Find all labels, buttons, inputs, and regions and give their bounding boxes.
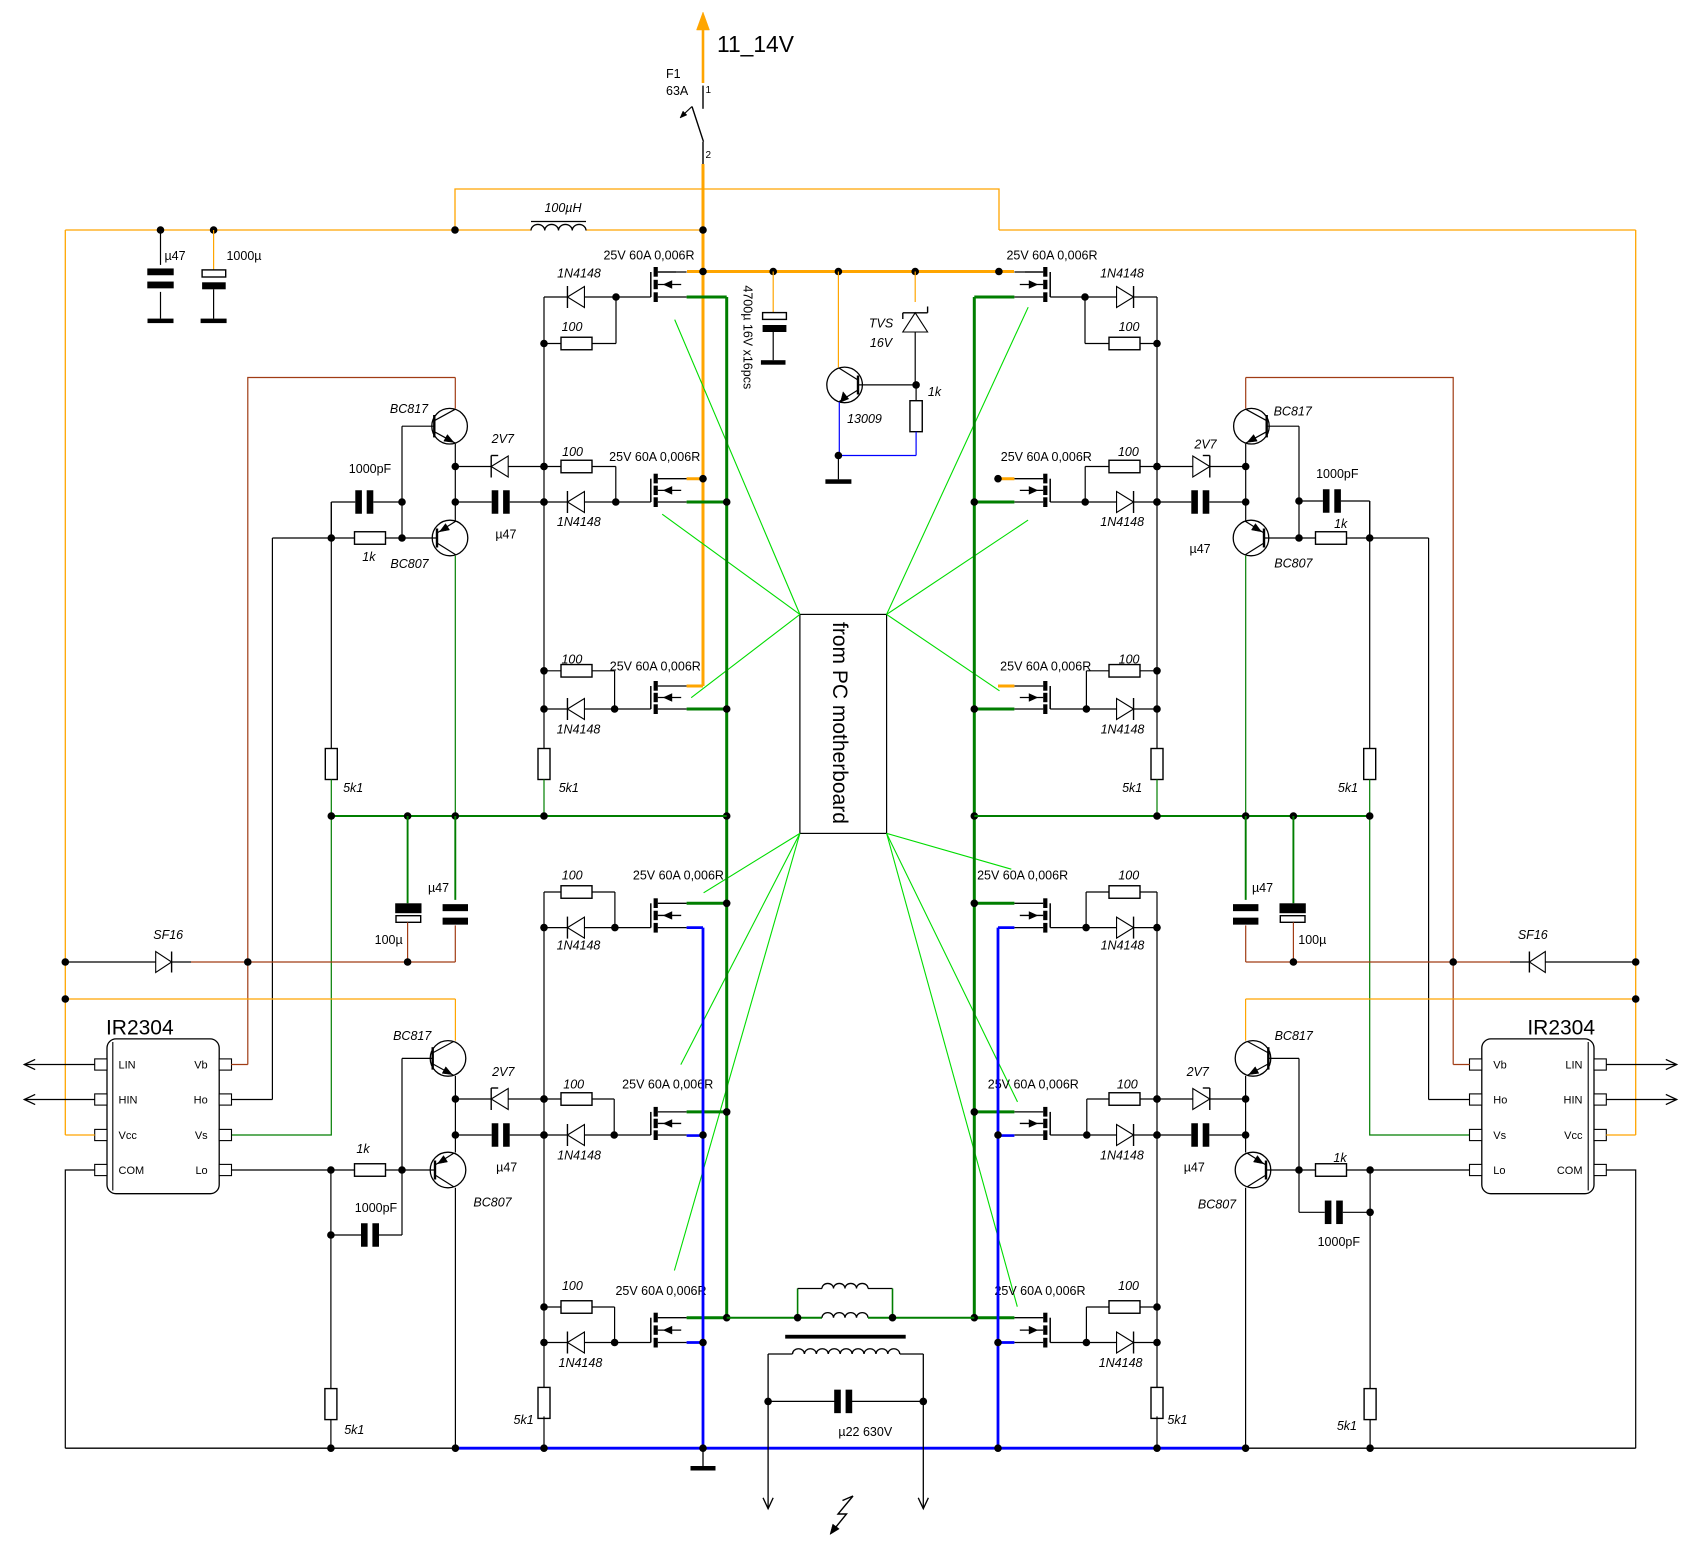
svg-text:Vs: Vs bbox=[1493, 1130, 1506, 1142]
wire BC817 collector (BL) bbox=[454, 999, 456, 1041]
svg-text:5k1: 5k1 bbox=[514, 1413, 534, 1427]
wire gate signal M2 top-left bbox=[662, 514, 800, 614]
wire Vcc orange row left bbox=[65, 998, 455, 1000]
svg-text:1N4148: 1N4148 bbox=[1100, 515, 1144, 529]
transistor BC817 (BL) bbox=[430, 1041, 466, 1077]
resistor 100 (B2 right) bbox=[1087, 1093, 1157, 1135]
svg-text:Vs: Vs bbox=[195, 1130, 208, 1142]
wire B1 source blue L bbox=[687, 926, 703, 929]
label 1k (TR) bbox=[1334, 517, 1348, 531]
svg-text:1N4148: 1N4148 bbox=[1101, 939, 1145, 953]
svg-text:1N4148: 1N4148 bbox=[1099, 1356, 1143, 1370]
wire orange left edge vertical bbox=[64, 230, 66, 1135]
svg-text:1k: 1k bbox=[1333, 1151, 1347, 1165]
transistor BC817 (TR) bbox=[1234, 408, 1270, 444]
junction dots phase bus left bbox=[723, 498, 731, 1321]
resistor 100 (B1 right) bbox=[1086, 886, 1157, 928]
transistor BC807 (BR) bbox=[1235, 1152, 1271, 1188]
svg-text:5k1: 5k1 bbox=[344, 1423, 364, 1437]
label 100 (M2 right) bbox=[1118, 445, 1139, 459]
wire gate rail R bottom bbox=[1156, 892, 1158, 1389]
capacitor u47 (BR) bbox=[1157, 1123, 1246, 1147]
wire column x331 bottom left bbox=[330, 1235, 332, 1389]
zener diode 2V7 (TR) bbox=[1157, 456, 1246, 478]
wire BC817 base (BR) bbox=[1268, 1057, 1299, 1059]
wire B2 source blue R bbox=[998, 1134, 1014, 1137]
wire gate signal B1 bottom-left bbox=[704, 833, 800, 892]
wire negative bus blue left bbox=[702, 928, 705, 1449]
MOSFET M1 left 25V 60A 0,006R bbox=[651, 267, 687, 302]
transformer core bbox=[785, 1335, 906, 1339]
wire Vs green left bbox=[231, 816, 331, 1135]
wire orange right edge vertical bbox=[1635, 230, 1637, 1135]
label µ47 (TR) bbox=[1190, 542, 1211, 556]
wire BC817 base (BL) bbox=[402, 1057, 433, 1059]
resistor 100 (B2 left) bbox=[544, 1093, 614, 1135]
wire gate signal B2 bottom-right bbox=[887, 833, 1018, 1102]
wire gate signal M1 top-left bbox=[675, 320, 800, 615]
svg-text:Ho: Ho bbox=[1493, 1095, 1507, 1107]
junction dots (M3 left) bbox=[540, 667, 618, 713]
label 5k1 (left bottom column) bbox=[344, 1423, 364, 1437]
svg-text:HIN: HIN bbox=[119, 1095, 138, 1107]
wire gate rail R top bbox=[1156, 297, 1158, 748]
label 11_14V bbox=[717, 31, 795, 57]
wire M3 source green R bbox=[974, 708, 1014, 711]
label 1N4148 (M1 right) bbox=[1100, 267, 1144, 281]
diode 1N4148 (B3 right) bbox=[1050, 1332, 1157, 1354]
wire LIN input arrow (left) bbox=[24, 1059, 95, 1069]
label 5k1 (left top column) bbox=[343, 781, 363, 795]
wire drive input (TR) bbox=[1370, 537, 1429, 539]
wire BC817 collector (BR) bbox=[1245, 999, 1247, 1041]
junction dots (B2 right) bbox=[1083, 1095, 1161, 1139]
junction dots (M1 left) bbox=[540, 293, 620, 347]
junction dots rail (TL) bbox=[540, 463, 548, 506]
label µ47 (BR) bbox=[1184, 1161, 1205, 1175]
svg-text:Vb: Vb bbox=[194, 1060, 207, 1072]
wire negative bus blue right bbox=[997, 928, 1000, 1449]
svg-text:Vcc: Vcc bbox=[119, 1130, 138, 1142]
svg-text:1k: 1k bbox=[356, 1142, 370, 1156]
svg-text:µ47: µ47 bbox=[164, 249, 185, 263]
svg-text:100: 100 bbox=[563, 1078, 584, 1092]
junction dots orange bus y230 bbox=[157, 226, 707, 234]
wire drain bus y271.5 bbox=[687, 270, 1014, 273]
transformer primary (raised winding) bbox=[798, 1283, 893, 1317]
svg-text:100: 100 bbox=[1118, 445, 1139, 459]
svg-text:100: 100 bbox=[1119, 653, 1140, 667]
label 1000pF (BR) bbox=[1318, 1235, 1361, 1249]
junction dots SF16 row right bbox=[1290, 958, 1640, 966]
wire Ho feed right bbox=[1428, 538, 1430, 1100]
wire B2 drain green R bbox=[974, 1110, 1014, 1113]
block from PC motherboard bbox=[800, 614, 887, 833]
label BC807 (BL) bbox=[473, 1196, 512, 1210]
label 1N4148 (B3 right) bbox=[1099, 1356, 1143, 1370]
junction dots blue bus right bbox=[994, 1131, 1002, 1346]
resistor 5k1 (rail R top) bbox=[1151, 749, 1163, 780]
svg-text:100: 100 bbox=[562, 869, 583, 883]
diode 1N4148 (B2 left) bbox=[544, 1124, 651, 1146]
wire 1000pF left vertical (TR) bbox=[1369, 501, 1371, 538]
label BC817 (TR) bbox=[1274, 405, 1313, 419]
resistor 5k1 (right top column) bbox=[1364, 749, 1376, 817]
junction dots 1k (TL) bbox=[328, 534, 336, 542]
svg-text:1000µ: 1000µ bbox=[226, 249, 261, 263]
label 100 (B2 left) bbox=[563, 1078, 584, 1092]
label 100 (B3 right) bbox=[1118, 1279, 1139, 1293]
junction dot M2 drain R bbox=[994, 475, 1002, 483]
transistor BC817 (TL) bbox=[432, 408, 468, 444]
diode SF16 (left) bbox=[65, 928, 191, 973]
IC IR2304 (R) bbox=[1470, 1017, 1607, 1194]
svg-text:1N4148: 1N4148 bbox=[557, 1149, 601, 1163]
label 1N4148 (B3 left) bbox=[559, 1356, 603, 1370]
junction dots emitter rail (BL) bbox=[452, 1095, 460, 1139]
junction dots 1k (BR) bbox=[1366, 1166, 1374, 1174]
label 100 (B1 left) bbox=[562, 869, 583, 883]
wire BC807 collector (TR) bbox=[1245, 556, 1247, 816]
svg-text:1N4148: 1N4148 bbox=[559, 1356, 603, 1370]
resistor 1k (13009 base) bbox=[910, 381, 942, 455]
wire ground bus black left bbox=[65, 1447, 455, 1449]
label 25V 60A 0,006R (B3 right) bbox=[994, 1284, 1085, 1298]
resistor 100 (B1 left) bbox=[544, 886, 615, 928]
junction dot base/cap (BL) bbox=[398, 1166, 406, 1174]
wire gate signal M2 top-right bbox=[887, 520, 1029, 614]
output arrow left bbox=[763, 1498, 773, 1509]
junction dots emitter rail (TL) bbox=[452, 463, 460, 506]
wire gate signal B3 bottom-left bbox=[674, 833, 800, 1270]
resistor 5k1 (rail R bottom) bbox=[1151, 1387, 1163, 1418]
label 25V 60A 0,006R (M3 right) bbox=[1000, 660, 1091, 674]
wire M1 drain stub L bbox=[658, 271, 676, 273]
zener diode 2V7 (BR) bbox=[1157, 1088, 1246, 1110]
svg-text:100: 100 bbox=[1119, 320, 1140, 334]
transformer primary (in-line winding) bbox=[727, 1313, 975, 1318]
MOSFET B1 right 25V 60A 0,006R bbox=[1014, 898, 1050, 932]
wire M1 source green R bbox=[974, 296, 1014, 299]
wire B3 drain green L bbox=[687, 1316, 727, 1319]
svg-text:1k: 1k bbox=[928, 385, 942, 399]
label 1N4148 (B2 right) bbox=[1100, 1149, 1144, 1163]
resistor 5k1 (left bottom column) bbox=[325, 1389, 337, 1449]
wire 13009 emitter blue bbox=[838, 402, 916, 456]
wire base vertical (BL) bbox=[401, 1058, 403, 1170]
wire COM (left) bbox=[65, 1170, 95, 1448]
resistor 100 (M2 right) bbox=[1085, 460, 1157, 502]
diode 1N4148 (M1 left) bbox=[544, 286, 651, 308]
wire Vb brown (left) bbox=[231, 1064, 248, 1066]
svg-text:1000pF: 1000pF bbox=[1316, 467, 1359, 481]
svg-text:µ47: µ47 bbox=[1184, 1161, 1205, 1175]
svg-text:F1: F1 bbox=[666, 67, 681, 81]
wire emitter rail (BL) bbox=[454, 1076, 456, 1153]
capacitor 4700u 16V x16pcs bbox=[741, 272, 787, 390]
junction dots blue bus left bbox=[699, 1131, 707, 1346]
label 5k1 (rail L bottom) bbox=[514, 1413, 534, 1427]
resistor 5k1 (right bottom column) bbox=[1364, 1389, 1376, 1449]
wire gate signal M1 top-right bbox=[887, 307, 1029, 614]
wire Vcc orange row right bbox=[1246, 998, 1636, 1000]
label 1N4148 (M2 right) bbox=[1100, 515, 1144, 529]
label 1N4148 (B1 right) bbox=[1101, 939, 1145, 953]
wire B1 source blue R bbox=[998, 926, 1014, 929]
wire main orange vertical x703 bbox=[702, 164, 705, 686]
svg-text:25V 60A 0,006R: 25V 60A 0,006R bbox=[633, 869, 724, 883]
resistor 100 (M2 left) bbox=[544, 460, 616, 502]
wire B1 drain green L bbox=[687, 902, 727, 905]
junction dot base/cap (TL) bbox=[398, 498, 406, 542]
IC IR2304 pin labels (R) bbox=[1493, 1060, 1583, 1178]
svg-text:BC807: BC807 bbox=[1274, 557, 1313, 571]
svg-text:µ47: µ47 bbox=[1252, 881, 1273, 895]
ground (1000u top left) bbox=[201, 319, 227, 324]
wire SF16 to caps brown (right) bbox=[1246, 961, 1510, 963]
junction dot 1000pF (BL) bbox=[327, 1231, 335, 1239]
label 25V 60A 0,006R (M2 right) bbox=[1001, 450, 1092, 464]
wire column x1370 top right bbox=[1369, 501, 1371, 748]
wire 1000pF verticals (BR) bbox=[1299, 1170, 1370, 1212]
wire emitter rail (BR) bbox=[1245, 1076, 1247, 1153]
label 2V7 (TL) bbox=[491, 432, 515, 446]
svg-text:LIN: LIN bbox=[119, 1060, 136, 1072]
capacitor u47 (top left) bbox=[147, 230, 185, 319]
junction dots transformer primary bbox=[794, 1314, 897, 1322]
resistor 1k (BL) bbox=[331, 1164, 402, 1177]
wire BC807 base (TR) bbox=[1264, 537, 1299, 539]
label 5k1 (rail R bottom) bbox=[1167, 1413, 1187, 1427]
wire COM (right) bbox=[1606, 1170, 1636, 1448]
svg-text:Ho: Ho bbox=[194, 1095, 208, 1107]
svg-text:11_14V: 11_14V bbox=[717, 31, 795, 57]
junction dots rail (TR) bbox=[1153, 463, 1161, 506]
wire M2 source green R bbox=[974, 501, 1014, 504]
MOSFET B3 left 25V 60A 0,006R bbox=[651, 1313, 687, 1348]
diode 1N4148 (B2 right) bbox=[1050, 1124, 1157, 1146]
svg-text:2V7: 2V7 bbox=[491, 432, 515, 446]
svg-text:1: 1 bbox=[706, 85, 712, 96]
svg-text:25V 60A 0,006R: 25V 60A 0,006R bbox=[609, 450, 700, 464]
label 25V 60A 0,006R (M1 left) bbox=[603, 249, 694, 263]
wire base vertical (TR) bbox=[1298, 426, 1300, 538]
wire M2 drain orange R bbox=[998, 477, 1014, 480]
junction dot base/cap (BR) bbox=[1295, 1166, 1303, 1174]
transistor 13009 bbox=[827, 272, 916, 427]
label 1k (TL) bbox=[362, 550, 376, 564]
wire BC807 collector (BR) bbox=[1245, 1188, 1247, 1449]
wire base vertical (TL) bbox=[401, 426, 403, 538]
wire BC817 base (TL) bbox=[402, 425, 434, 427]
wire phase bus green left bbox=[725, 297, 728, 1318]
svg-text:Vb: Vb bbox=[1493, 1060, 1506, 1072]
inductor 100uH bbox=[531, 201, 586, 231]
svg-text:BC817: BC817 bbox=[1274, 405, 1313, 419]
wire 1000pF left vertical (TL) bbox=[330, 502, 332, 538]
svg-text:100: 100 bbox=[561, 653, 582, 667]
label 2V7 (BL) bbox=[491, 1065, 515, 1079]
wire SF16 to caps brown (left) bbox=[191, 961, 455, 963]
svg-text:µ47: µ47 bbox=[1190, 542, 1211, 556]
output arrow right bbox=[918, 1498, 928, 1509]
label 100 (M3 left) bbox=[561, 653, 582, 667]
fuse-switch F1 63A bbox=[666, 67, 712, 164]
junction dots rail (BR) bbox=[1153, 1095, 1161, 1139]
svg-text:5k1: 5k1 bbox=[1337, 1419, 1357, 1433]
label 1000pF (BL) bbox=[355, 1201, 398, 1215]
wire gate signal B3 bottom-right bbox=[887, 833, 1018, 1306]
junction dot M2 drain L bbox=[699, 475, 707, 483]
wire BC817 collector (TL) bbox=[454, 378, 456, 409]
wire Vcc orange (right) bbox=[1606, 1134, 1636, 1136]
label BC817 (BL) bbox=[393, 1029, 432, 1043]
svg-text:BC817: BC817 bbox=[393, 1029, 432, 1043]
wire column x1371 bottom right bbox=[1369, 1212, 1371, 1389]
wire M1 drain stub R bbox=[1025, 271, 1043, 273]
wire Vb brown bus right bbox=[1246, 378, 1454, 1065]
label 25V 60A 0,006R (B2 right) bbox=[988, 1078, 1079, 1092]
svg-text:5k1: 5k1 bbox=[1122, 781, 1142, 795]
diode 1N4148 (M2 right) bbox=[1050, 491, 1157, 513]
junction dots (M2 right) bbox=[1081, 463, 1160, 506]
transistor BC807 (TL) bbox=[432, 520, 468, 556]
diode 1N4148 (B1 left) bbox=[544, 917, 651, 939]
wire BC807 base (BR) bbox=[1266, 1169, 1299, 1171]
MOSFET B2 right 25V 60A 0,006R bbox=[1014, 1107, 1050, 1140]
svg-text:BC807: BC807 bbox=[473, 1196, 512, 1210]
svg-text:Lo: Lo bbox=[195, 1165, 207, 1177]
spark symbol bbox=[830, 1496, 853, 1535]
junction dots SF16 row left bbox=[62, 958, 412, 966]
junction dots (M2 left) bbox=[540, 463, 619, 506]
junction dots (B2 left) bbox=[540, 1095, 618, 1139]
resistor 100 (M1 right) bbox=[1085, 297, 1157, 350]
svg-text:100: 100 bbox=[562, 1279, 583, 1293]
label 100 (B1 right) bbox=[1118, 869, 1139, 883]
label BC807 (BR) bbox=[1198, 1198, 1237, 1212]
svg-text:1N4148: 1N4148 bbox=[1101, 723, 1145, 737]
svg-text:HIN: HIN bbox=[1564, 1095, 1583, 1107]
label 25V 60A 0,006R (B3 left) bbox=[615, 1284, 706, 1298]
resistor 5k1 (rail L top) bbox=[538, 749, 550, 780]
svg-text:SF16: SF16 bbox=[153, 928, 183, 942]
label 1N4148 (M2 left) bbox=[557, 515, 601, 529]
svg-text:2V7: 2V7 bbox=[1193, 438, 1217, 452]
wire orange bus y230 right bbox=[999, 229, 1636, 231]
svg-text:from PC motherboard: from PC motherboard bbox=[828, 622, 851, 824]
svg-text:1N4148: 1N4148 bbox=[1100, 1149, 1144, 1163]
resistor 100 (M1 left) bbox=[544, 297, 616, 350]
svg-text:COM: COM bbox=[1557, 1165, 1583, 1177]
svg-text:BC817: BC817 bbox=[390, 402, 429, 416]
svg-text:1000pF: 1000pF bbox=[349, 462, 392, 476]
wire BC807 base (BL) bbox=[402, 1169, 435, 1171]
svg-text:25V 60A 0,006R: 25V 60A 0,006R bbox=[1000, 660, 1091, 674]
label BC817 (BR) bbox=[1275, 1029, 1314, 1043]
diode 1N4148 (B3 left) bbox=[544, 1332, 651, 1354]
transformer secondary bbox=[768, 1349, 923, 1509]
svg-text:BC807: BC807 bbox=[390, 557, 429, 571]
wire HIN input arrow (right) bbox=[1606, 1094, 1677, 1104]
wire base vertical (BR) bbox=[1298, 1058, 1300, 1170]
wire mid bus green right bbox=[974, 815, 1369, 817]
svg-text:5k1: 5k1 bbox=[343, 781, 363, 795]
svg-text:COM: COM bbox=[119, 1165, 145, 1177]
svg-text:25V 60A 0,006R: 25V 60A 0,006R bbox=[1006, 249, 1097, 263]
svg-text:100: 100 bbox=[562, 320, 583, 334]
wire gate signal B1 bottom-right bbox=[887, 833, 1012, 869]
label 1k (BL) bbox=[356, 1142, 370, 1156]
ground (13009) bbox=[825, 456, 851, 484]
wire gate rail L bottom bbox=[543, 892, 545, 1389]
junction dot base/cap (TR) bbox=[1295, 497, 1303, 542]
ground (main) bbox=[691, 1448, 716, 1470]
label 100 (M2 left) bbox=[562, 445, 583, 459]
capacitor u22 630V bbox=[764, 1390, 927, 1439]
capacitor u47 (mid right) bbox=[1233, 816, 1273, 962]
power arrow 11_14V bbox=[697, 12, 710, 83]
capacitor 1000pF (TL) bbox=[331, 490, 402, 514]
label 100 (M1 left) bbox=[562, 320, 583, 334]
MOSFET M2 right 25V 60A 0,006R bbox=[1014, 474, 1050, 507]
label BC807 (TL) bbox=[390, 557, 429, 571]
svg-text:µ22 630V: µ22 630V bbox=[838, 1425, 892, 1439]
junction dots (M1 right) bbox=[1081, 293, 1161, 347]
svg-text:100: 100 bbox=[1118, 869, 1139, 883]
resistor 100 (M3 right) bbox=[1086, 665, 1157, 709]
MOSFET B2 left 25V 60A 0,006R bbox=[651, 1107, 687, 1140]
wire LIN input arrow (right) bbox=[1606, 1059, 1677, 1069]
zener diode 2V7 (TL) bbox=[455, 456, 544, 478]
resistor 5k1 (left top column) bbox=[325, 749, 337, 817]
svg-text:25V 60A 0,006R: 25V 60A 0,006R bbox=[977, 869, 1068, 883]
label 1000pF (TL) bbox=[349, 462, 392, 476]
wire BC807 collector (TL) bbox=[454, 556, 456, 816]
IC IR2304 pin labels (L) bbox=[119, 1060, 209, 1178]
svg-text:100µH: 100µH bbox=[544, 201, 582, 215]
svg-text:13009: 13009 bbox=[847, 412, 882, 426]
resistor 1k (TR) bbox=[1299, 532, 1370, 545]
label 25V 60A 0,006R (M1 right) bbox=[1006, 249, 1097, 263]
svg-text:1k: 1k bbox=[362, 550, 376, 564]
TVS diode 16V bbox=[869, 272, 928, 385]
wire M2 drain orange L bbox=[687, 477, 703, 480]
svg-text:Vcc: Vcc bbox=[1564, 1130, 1583, 1142]
junction dot 1000pF (BR) bbox=[1366, 1209, 1374, 1217]
svg-text:63A: 63A bbox=[666, 84, 689, 98]
svg-text:25V 60A 0,006R: 25V 60A 0,006R bbox=[615, 1284, 706, 1298]
zener diode 2V7 (BL) bbox=[455, 1088, 544, 1110]
svg-text:1000pF: 1000pF bbox=[1318, 1235, 1361, 1249]
label 100 (B3 left) bbox=[562, 1279, 583, 1293]
wire ground bus blue center bbox=[455, 1447, 1245, 1450]
svg-text:2: 2 bbox=[706, 150, 712, 161]
transistor BC817 (BR) bbox=[1235, 1041, 1271, 1077]
svg-text:SF16: SF16 bbox=[1518, 928, 1548, 942]
wire rail to mid bus R top bbox=[1156, 780, 1158, 817]
diode 1N4148 (B1 right) bbox=[1050, 917, 1157, 939]
label 1k (BR) bbox=[1333, 1151, 1347, 1165]
junction dot 13009 emitter bbox=[835, 452, 843, 460]
label 100 (M3 right) bbox=[1119, 653, 1140, 667]
svg-text:25V 60A 0,006R: 25V 60A 0,006R bbox=[610, 660, 701, 674]
transistor BC807 (TR) bbox=[1233, 520, 1269, 556]
MOSFET B3 right 25V 60A 0,006R bbox=[1014, 1313, 1050, 1348]
svg-text:25V 60A 0,006R: 25V 60A 0,006R bbox=[622, 1078, 713, 1092]
junction dot Vcc row left bbox=[62, 995, 70, 1003]
resistor 100 (B3 left) bbox=[544, 1301, 615, 1343]
